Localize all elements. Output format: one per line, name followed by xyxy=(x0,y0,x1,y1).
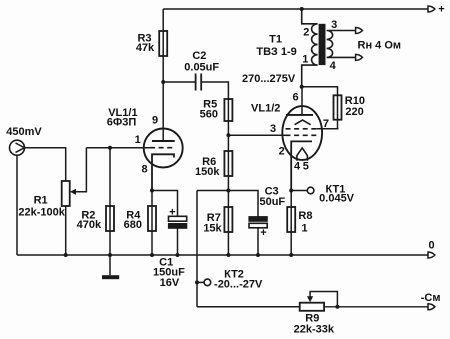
resistor R4 xyxy=(151,191,153,256)
svg-text:680: 680 xyxy=(124,219,142,231)
svg-text:9: 9 xyxy=(152,115,158,127)
pentode VL1/2 xyxy=(282,106,322,160)
potentiometer R1 xyxy=(62,181,70,206)
svg-text:4: 4 xyxy=(330,60,337,72)
svg-text:6: 6 xyxy=(292,92,298,104)
node transformer primary top xyxy=(300,7,304,11)
node KT2 branch xyxy=(195,280,199,284)
svg-text:0.05uF: 0.05uF xyxy=(184,61,219,73)
svg-text:16V: 16V xyxy=(160,277,180,289)
screen grid g2 xyxy=(286,128,318,130)
resistor R7 xyxy=(227,191,229,256)
cathode VL1/2 xyxy=(291,141,312,190)
wire g1 VL1/2 xyxy=(228,134,285,136)
terminal secondary 3 xyxy=(356,28,363,34)
svg-text:22k-100k: 22k-100k xyxy=(18,206,65,218)
svg-text:Rн 4 Ом: Rн 4 Ом xyxy=(358,40,402,52)
node R6 R7 bias xyxy=(226,189,230,193)
terminal + xyxy=(428,6,435,12)
resistor R3 xyxy=(162,31,164,56)
triode VL1/1 xyxy=(144,129,183,168)
wire C2 left lead xyxy=(163,81,195,83)
transformer T1 core xyxy=(319,24,326,65)
svg-text:VL1/2: VL1/2 xyxy=(251,103,280,115)
node C3 rail xyxy=(256,253,260,257)
svg-text:470k: 470k xyxy=(77,219,102,231)
wire C1 top lead xyxy=(152,191,178,217)
svg-text:50uF: 50uF xyxy=(259,196,285,208)
wire 0V bottom rail xyxy=(17,254,428,256)
svg-text:15k: 15k xyxy=(203,222,222,234)
resistor R8 xyxy=(290,191,292,256)
node R7 rail xyxy=(226,253,230,257)
wire grid VL1/1 xyxy=(86,147,150,149)
grid VL1/1 xyxy=(150,147,174,149)
svg-text:+: + xyxy=(169,206,175,218)
svg-text:4: 4 xyxy=(294,161,301,173)
svg-text:560: 560 xyxy=(200,109,218,121)
test point KT2 xyxy=(204,279,211,286)
wire R3 top lead xyxy=(162,9,164,31)
capacitor C2 xyxy=(195,74,197,91)
node R2 bottom rail xyxy=(108,253,112,257)
wire source ground lead xyxy=(16,155,18,255)
resistor R5 xyxy=(227,99,229,121)
svg-text:3: 3 xyxy=(331,19,337,31)
svg-text:C2: C2 xyxy=(192,50,206,62)
svg-text:+: + xyxy=(260,227,266,239)
node anode supply junction xyxy=(300,85,304,89)
svg-text:Т1: Т1 xyxy=(269,34,282,46)
svg-text:150k: 150k xyxy=(195,166,220,178)
svg-text:47k: 47k xyxy=(136,42,155,54)
source input 450mV xyxy=(10,140,25,155)
node C1 rail xyxy=(176,253,180,257)
capacitor C1 xyxy=(169,216,187,221)
wire R10 top lead xyxy=(302,87,338,96)
svg-text:1: 1 xyxy=(302,53,308,65)
wire KT1 stub xyxy=(291,190,307,192)
cathode VL1/1 xyxy=(152,154,174,190)
svg-text:1: 1 xyxy=(135,134,141,146)
node R8 rail xyxy=(289,253,293,257)
svg-text:8: 8 xyxy=(142,163,148,175)
node R9 wiper tie xyxy=(335,305,339,309)
svg-text:3: 3 xyxy=(270,123,276,135)
wire feedback vertical xyxy=(196,191,198,307)
wiper R1 xyxy=(75,148,86,192)
node R4 rail xyxy=(150,253,154,257)
wire bias node right to C3 xyxy=(228,191,258,217)
node R5 R6 g1 xyxy=(226,133,230,137)
capacitor C3 xyxy=(249,217,267,222)
node R2 top xyxy=(108,146,112,150)
svg-text:2: 2 xyxy=(279,146,285,158)
anode VL1/2 xyxy=(286,114,313,116)
resistor R2 xyxy=(109,148,111,255)
svg-text:22k-33k: 22k-33k xyxy=(294,324,335,336)
svg-text:R1: R1 xyxy=(34,195,48,207)
control grid g1 xyxy=(286,134,318,136)
wire KT2 stub xyxy=(197,281,204,283)
potentiometer R9 xyxy=(300,303,324,311)
svg-text:R8: R8 xyxy=(298,210,312,222)
svg-text:450mV: 450mV xyxy=(6,126,42,138)
svg-text:0: 0 xyxy=(429,240,435,252)
svg-text:2: 2 xyxy=(303,27,309,39)
wire R10 bottom to g2 xyxy=(337,120,339,129)
svg-text:0.045V: 0.045V xyxy=(319,192,355,204)
svg-text:-20...-27V: -20...-27V xyxy=(214,279,263,291)
svg-text:+: + xyxy=(438,4,444,16)
terminal 0 xyxy=(428,252,435,258)
node cathode R8 KT1 xyxy=(289,189,293,193)
anode VL1/1 xyxy=(152,140,175,142)
svg-text:5: 5 xyxy=(303,161,309,173)
beam plates VL1/2 xyxy=(295,120,311,125)
wire top +B rail xyxy=(163,8,427,10)
wire R5 bottom to g1 node xyxy=(227,121,229,135)
node cathode R4 C1 xyxy=(150,189,154,193)
resistor R10 xyxy=(337,95,339,119)
svg-text:7: 7 xyxy=(323,118,329,130)
svg-text:ТВЗ 1-9: ТВЗ 1-9 xyxy=(256,46,296,58)
wire C2 right lead to R5 xyxy=(201,82,228,99)
terminal -Cm xyxy=(428,304,435,310)
transformer T1 primary xyxy=(302,9,318,87)
svg-text:220: 220 xyxy=(345,106,363,118)
wire feedback to R9 xyxy=(197,306,300,308)
wire R3 bottom to triode anode xyxy=(162,56,164,141)
svg-text:270...275V: 270...275V xyxy=(242,73,296,85)
svg-text:6Ф3П: 6Ф3П xyxy=(107,116,137,128)
node anode VL1/1 junction xyxy=(161,80,165,84)
svg-text:-См: -См xyxy=(421,292,441,304)
wire bias node left xyxy=(197,190,228,192)
resistor R6 xyxy=(227,135,229,190)
heater VL1/2 xyxy=(297,148,308,161)
node R1 bottom rail xyxy=(64,253,68,257)
transformer T1 secondary xyxy=(327,31,356,58)
svg-text:1: 1 xyxy=(302,222,308,234)
test point KT1 xyxy=(307,187,314,194)
terminal secondary 4 xyxy=(356,54,363,60)
ground xyxy=(109,255,111,275)
wire input to R1 top xyxy=(25,148,66,181)
